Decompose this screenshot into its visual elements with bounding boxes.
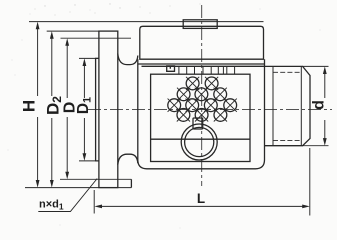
stem [193, 118, 203, 129]
dimension L arrows [94, 205, 309, 209]
spring coil ticks [179, 66, 235, 74]
spring wire section row 2 left [177, 88, 190, 101]
flange plate [99, 31, 118, 188]
spring wire section row 3 fourth [224, 99, 237, 112]
svg-text:H: H [20, 100, 39, 112]
D1 top extension line [79, 57, 99, 59]
valve body outline [138, 59, 265, 169]
spring wire section row 4 middle [195, 108, 208, 121]
ring outer [181, 124, 217, 160]
outlet top extension to d dimension [303, 65, 329, 67]
svg-text:L: L [197, 191, 205, 206]
neck fillet top [118, 54, 138, 65]
svg-text:d: d [311, 100, 328, 110]
spring wire section row 1 left [186, 77, 199, 90]
dimension D arrows [65, 38, 69, 179]
body top face line [138, 63, 265, 65]
leader line n x d1 [38, 179, 97, 212]
thread root hidden line top [273, 71, 301, 73]
top plug M1 [183, 20, 217, 29]
dimension D1 line [83, 63, 85, 156]
spring wire section row 2 right [214, 88, 227, 101]
flange raised face [96, 58, 99, 160]
thread end line left [272, 66, 274, 145]
dimension L line [99, 205, 305, 207]
ring inner [185, 127, 214, 156]
dimension d line [324, 71, 326, 141]
outlet connector [265, 66, 311, 145]
bolt hole line top [61, 37, 132, 39]
dimension H line [37, 27, 39, 184]
outlet bottom extension to d dimension [303, 145, 329, 147]
seat line [151, 138, 250, 140]
body inner shoulder line [142, 65, 265, 67]
dimension L extension right [309, 148, 311, 216]
vertical centerline [201, 5, 203, 186]
dimension d arrows [323, 66, 327, 145]
inner chamber box [151, 74, 250, 161]
thread root hidden line bottom [273, 139, 301, 141]
spring wire section row 1 right [205, 77, 218, 90]
dimension D2 line [51, 36, 53, 183]
bolt hole line bottom [60, 178, 131, 180]
horizontal centerline [88, 108, 332, 110]
spring wire section row 3 second [186, 99, 199, 112]
H top extension line [29, 21, 264, 23]
dimension D2 arrows [50, 31, 54, 188]
spring tab [167, 66, 175, 71]
flange bottom extension line [25, 187, 131, 189]
spring wire section row 2 middle [195, 88, 208, 101]
neck fillet bottom [118, 154, 138, 165]
spring wire section row 3 third [204, 99, 217, 112]
bonnet cap [140, 26, 264, 59]
spring wire section row 4 left [177, 108, 190, 121]
spring wire section row 3 first [168, 99, 181, 112]
D1 bottom extension line [79, 160, 96, 162]
D2 top extension line [47, 30, 99, 32]
dimension L extension left [93, 190, 95, 214]
dimension H arrows [36, 22, 40, 188]
spring wire section row 4 right [214, 108, 227, 121]
flange hub edge [130, 179, 132, 187]
dimension D line [66, 43, 68, 175]
thread end line right [300, 66, 302, 145]
dimension D1 arrows [83, 58, 87, 160]
